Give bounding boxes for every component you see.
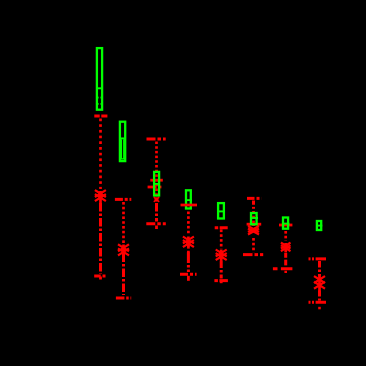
- green box 2 outline: [120, 122, 125, 161]
- red X marker 4a: [183, 237, 194, 244]
- red top cap 5: [215, 226, 228, 229]
- red tail 8: [318, 307, 321, 310]
- red dotted segment 4 mid: [187, 246, 190, 252]
- red dotted whisker 6 lower: [252, 238, 255, 253]
- red X marker 8b: [314, 282, 325, 289]
- red centre line 7: [284, 243, 287, 253]
- red centre line 2: [122, 245, 125, 255]
- green box 5 median tick: [217, 210, 225, 212]
- red dash-dot whisker 5 lower: [220, 261, 223, 279]
- green box 2 inner line left: [121, 140, 123, 160]
- red bottom cap 4: [180, 273, 197, 276]
- red dotted whisker 2 upper: [122, 202, 125, 243]
- red X marker 5b: [216, 253, 227, 260]
- red dotted whisker 7 upper: [284, 231, 287, 241]
- red X marker 7a: [281, 243, 291, 249]
- red dash-dot whisker 7 lower: [284, 253, 287, 267]
- green box 6 median tick: [250, 217, 258, 219]
- red top cap 2: [115, 198, 131, 201]
- red dash-dot whisker 8 lower: [318, 291, 321, 301]
- green box 5 outline: [218, 203, 224, 218]
- red tail 7: [284, 271, 287, 273]
- red X marker 1b: [95, 194, 106, 201]
- red dotted whisker 1 upper: [99, 119, 102, 190]
- red X marker 6a: [248, 226, 259, 232]
- green box 3 outline: [154, 172, 159, 196]
- red top cap 8: [309, 257, 327, 260]
- red dash-dot whisker 4 lower: [187, 252, 190, 272]
- green box 4 median tick: [185, 199, 192, 201]
- green box 7 median tick: [282, 223, 290, 225]
- red bottom cap 2: [116, 297, 131, 300]
- red X marker 2b: [118, 248, 129, 255]
- red crossing cap 6: [247, 223, 262, 226]
- green box 6 outline: [251, 213, 257, 224]
- red centre line 5: [220, 250, 223, 262]
- red bottom cap 3: [146, 222, 166, 225]
- red centre line 4: [187, 237, 190, 248]
- red centre line 8: [318, 276, 321, 291]
- green box 3 median tick: [153, 183, 160, 185]
- red top cap 3: [147, 138, 166, 141]
- red dash-dot whisker 8 upper: [318, 261, 321, 277]
- red dash-dot whisker 1 lower: [99, 203, 102, 274]
- green box 1 outline: [97, 48, 102, 110]
- green box 2 median tick: [119, 137, 126, 139]
- red bottom cap 6: [243, 253, 263, 256]
- red dash-dot whisker 3 lower: [155, 203, 158, 222]
- red crossing cap 4 (over box): [181, 204, 198, 207]
- green box 1 inner cap a: [96, 97, 103, 99]
- red X marker 4b: [183, 240, 194, 247]
- green box 2 inner line right: [123, 140, 125, 160]
- red X marker 8a: [314, 276, 325, 283]
- red dash-dot whisker 6 upper: [252, 201, 255, 211]
- red X marker 5a: [216, 250, 227, 257]
- red dotted whisker 6 through box: [252, 211, 255, 226]
- red tail 3: [155, 226, 158, 230]
- green box 8 outline: [317, 221, 321, 230]
- red X marker 7b: [281, 245, 291, 251]
- red bottom cap 8: [309, 301, 327, 304]
- red bottom cap 5: [214, 279, 228, 282]
- red X marker 6b: [248, 229, 259, 235]
- green box 1 median tick: [96, 87, 103, 89]
- red dotted whisker 5 upper: [220, 230, 223, 250]
- red bottom cap 1: [94, 275, 107, 278]
- red crossing cap 7: [279, 224, 292, 227]
- red dotted whisker 3 upper (passes through green box): [155, 142, 158, 197]
- red crossing cap 3b: [148, 186, 163, 189]
- red centre line 1: [99, 191, 102, 203]
- red tail 1: [99, 277, 102, 280]
- green box 1 inner cap b: [96, 103, 103, 105]
- green box 8 median tick: [316, 225, 323, 227]
- green box 7 outline: [283, 218, 288, 229]
- red tail 5: [220, 281, 223, 283]
- red bottom cap 7: [273, 267, 293, 270]
- red top cap 6: [247, 197, 262, 200]
- green box 4 outline: [186, 190, 191, 208]
- red X marker 3 (blob): [155, 197, 159, 201]
- red X marker 2a: [118, 244, 129, 251]
- red dash-dot whisker 2 lower: [122, 254, 125, 296]
- red top cap 1: [94, 115, 107, 118]
- red dotted whisker 4 upper: [187, 212, 190, 235]
- green box 2 inner bottom edge: [120, 158, 125, 160]
- red crossing cap 3a: [150, 179, 163, 182]
- red tail 4: [187, 276, 190, 283]
- red X marker 1a: [95, 190, 106, 197]
